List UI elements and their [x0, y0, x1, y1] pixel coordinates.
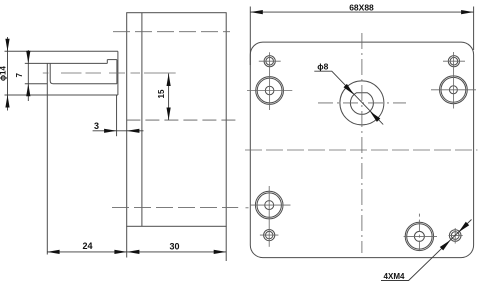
svg-text:30: 30	[169, 242, 179, 252]
svg-text:15: 15	[157, 89, 166, 98]
svg-text:68X88: 68X88	[349, 3, 374, 13]
svg-text:ϕ14: ϕ14	[0, 66, 8, 81]
svg-text:3: 3	[94, 121, 99, 131]
svg-text:4XM4: 4XM4	[384, 272, 405, 281]
svg-text:24: 24	[82, 241, 92, 251]
svg-text:7: 7	[15, 72, 24, 77]
svg-text:ϕ8: ϕ8	[317, 62, 328, 72]
